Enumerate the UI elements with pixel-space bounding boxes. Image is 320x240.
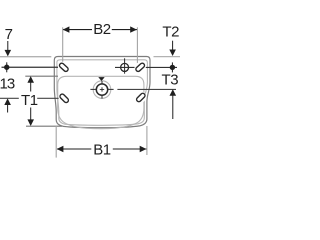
oval slot A — [59, 62, 69, 72]
T1 dim top line (inner bowl back edge extension) — [25, 75, 58, 77]
B1 dim line right + arrow — [113, 148, 147, 150]
svg-text:T1: T1 — [21, 92, 38, 109]
oval slot D — [136, 92, 146, 102]
oval slot halo B — [132, 60, 148, 75]
T2 down arrow — [172, 41, 174, 51]
tap hole center cross — [100, 87, 104, 91]
oval slot halo D — [133, 90, 149, 106]
B1 dim line left + arrow — [57, 148, 91, 150]
inner bowl outline — [58, 76, 144, 128]
right dot — [170, 65, 175, 70]
svg-text:B1: B1 — [93, 142, 111, 159]
T1 up arrow — [27, 76, 34, 83]
lower hole line (left of T1 text) — [0, 97, 19, 99]
svg-text:13: 13 — [0, 75, 15, 92]
oval slot halo A — [56, 60, 72, 75]
svg-text:7: 7 — [5, 26, 13, 43]
tap hole center line — [117, 88, 176, 90]
tap hole inner circle — [96, 84, 107, 95]
13 up arrow (below hole line 2) — [4, 98, 11, 105]
basin outer outline — [54, 57, 150, 128]
svg-text:T3: T3 — [162, 71, 179, 88]
tap hole ticks — [90, 81, 113, 99]
svg-text:T2: T2 — [162, 23, 179, 40]
T1 down arrow — [30, 108, 32, 121]
B1 ext line right — [146, 126, 148, 155]
B2 dim line right + arrow — [112, 29, 137, 31]
left dot — [4, 65, 9, 70]
oval slot halo C — [56, 91, 72, 107]
hole line right (through crosshair + oval B) — [115, 66, 177, 68]
T3 up arrow — [170, 89, 177, 96]
hole line left (through oval A) — [2, 66, 59, 68]
right dot ticks — [171, 62, 173, 72]
7 down arrow — [7, 41, 9, 51]
B2 dim line left + arrow — [63, 29, 92, 31]
T1 bottom line (front edge extension) — [26, 125, 62, 127]
lower hole line (right of T1 text, to oval C) — [37, 97, 59, 99]
wall line right — [154, 56, 181, 58]
B2 ext line right — [136, 27, 138, 63]
tap hole down arrow — [98, 77, 104, 81]
B2 ext line left — [62, 27, 64, 62]
crosshair circle — [121, 63, 129, 71]
oval slot C — [59, 93, 69, 103]
tap hole outer circle — [93, 81, 111, 99]
svg-text:B2: B2 — [93, 21, 111, 38]
basin rim inner line — [57, 60, 147, 125]
oval slot B — [135, 62, 145, 72]
wall line left — [0, 56, 51, 58]
B1 ext line left — [55, 126, 57, 158]
left dot ticks — [6, 62, 8, 72]
